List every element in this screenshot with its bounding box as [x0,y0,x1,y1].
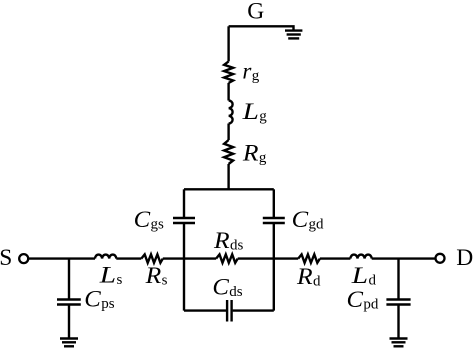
svg-text:L: L [351,263,369,288]
svg-text:ds: ds [230,238,244,254]
svg-text:R: R [213,228,230,253]
svg-text:ds: ds [229,284,243,300]
svg-text:D: D [456,245,473,271]
svg-text:C: C [212,275,229,300]
svg-text:gs: gs [151,217,165,233]
svg-text:C: C [84,287,101,312]
svg-text:ps: ps [101,296,115,312]
svg-text:g: g [252,68,260,84]
svg-text:S: S [0,245,12,271]
svg-text:G: G [247,0,264,25]
svg-text:g: g [259,109,267,125]
svg-text:pd: pd [363,297,379,313]
svg-text:R: R [296,264,313,289]
svg-text:d: d [313,274,321,290]
svg-text:gd: gd [309,217,325,233]
svg-text:g: g [259,150,267,166]
svg-text:L: L [241,99,259,124]
svg-text:R: R [144,263,161,288]
svg-text:d: d [369,273,377,289]
svg-text:R: R [242,141,259,166]
svg-text:C: C [347,287,364,312]
svg-text:L: L [99,262,117,287]
svg-text:s: s [117,272,123,288]
svg-text:C: C [134,207,151,232]
svg-text:s: s [162,273,168,289]
svg-text:C: C [292,207,309,232]
